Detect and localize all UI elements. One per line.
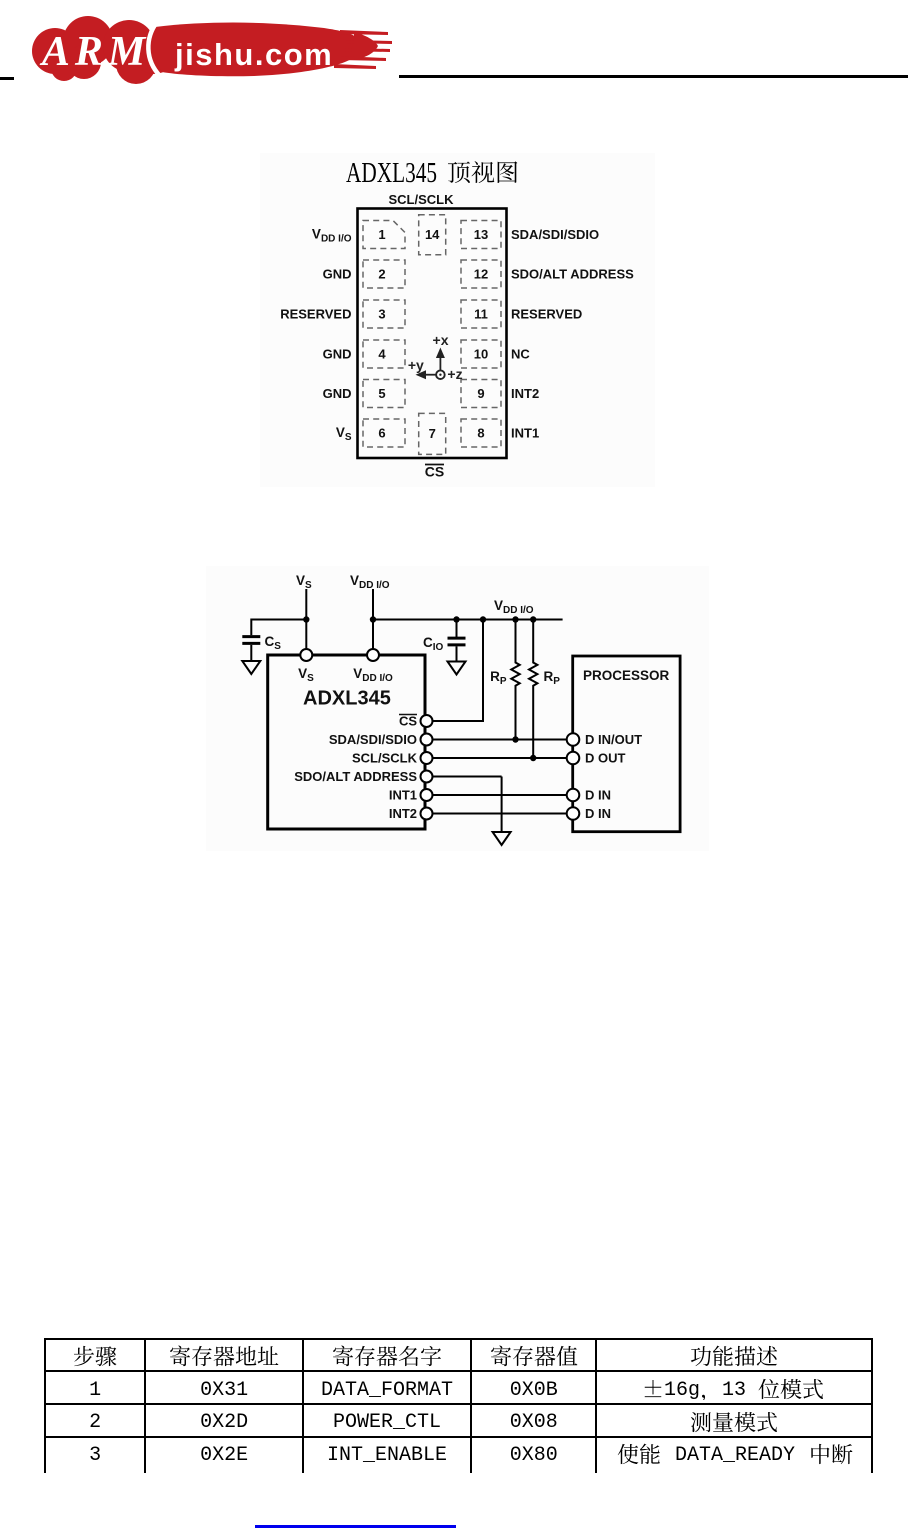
pin SCL/SCLK of ADXL345 — [421, 752, 433, 764]
svg-text:INT2: INT2 — [389, 806, 417, 821]
svg-text:D OUT: D OUT — [585, 751, 626, 766]
svg-text:RP: RP — [490, 669, 507, 687]
svg-text:10: 10 — [474, 347, 488, 362]
svg-text:SDA/SDI/SDIO: SDA/SDI/SDIO — [329, 732, 417, 747]
label CS — [265, 634, 282, 652]
pad pin 9 (right column) — [461, 380, 501, 408]
node CS bus junction — [480, 616, 486, 622]
wire VDD vertical — [372, 589, 374, 649]
ground under CIO — [448, 662, 466, 675]
label INT1 — [511, 426, 539, 441]
label INT2 — [511, 386, 539, 401]
label GND (pin 2) — [323, 267, 352, 282]
pad pin 14 (top middle) — [419, 215, 446, 255]
svg-text:9: 9 — [477, 386, 484, 401]
wire VDD I/O bus — [373, 619, 563, 621]
label +y — [408, 357, 424, 373]
svg-text:+y: +y — [408, 357, 424, 373]
svg-text:NC: NC — [511, 347, 530, 362]
label SCL/SCLK (pin) — [352, 751, 418, 766]
svg-text:D IN: D IN — [585, 806, 611, 821]
wire INT2 net — [433, 813, 567, 815]
pad pin 5 (left column) — [363, 380, 405, 408]
svg-text:+z: +z — [447, 366, 462, 382]
axis indicator: +x arrow — [436, 348, 445, 371]
node CIO junction — [453, 616, 459, 622]
svg-text:VDD I/O: VDD I/O — [350, 573, 390, 591]
svg-text:VDD I/O: VDD I/O — [312, 227, 352, 245]
pad pin 8 (right column) — [461, 419, 501, 447]
svg-text:6: 6 — [378, 426, 385, 441]
label SDA/SDI/SDIO (pin) — [329, 732, 417, 747]
svg-text:SCL/SCLK: SCL/SCLK — [352, 751, 418, 766]
label CIO — [423, 635, 444, 653]
label CS-bar (pin 7, bottom) — [425, 464, 444, 480]
svg-text:RESERVED: RESERVED — [511, 307, 582, 322]
label INT1 (pin) — [389, 788, 417, 803]
pad pin 12 (right column) — [461, 260, 501, 288]
svg-text:VS: VS — [336, 425, 352, 443]
node VDD junction — [370, 616, 376, 622]
svg-text:8: 8 — [477, 426, 484, 441]
svg-text:RP: RP — [544, 669, 561, 687]
svg-text:PROCESSOR: PROCESSOR — [583, 668, 670, 683]
svg-text:CS: CS — [425, 464, 444, 480]
svg-text:CS: CS — [399, 714, 417, 729]
pin D IN/OUT of PROCESSOR — [567, 733, 580, 746]
pad pin 7 (bottom middle) — [419, 413, 446, 454]
svg-text:ADXL345: ADXL345 — [303, 688, 391, 710]
node VS junction — [303, 616, 309, 622]
label RP1 — [490, 669, 507, 687]
label +x — [433, 332, 449, 348]
resistor RP1 (pull-up on SDA) — [511, 616, 519, 739]
label VDD I/O (bus) — [494, 598, 534, 616]
pad pin 4 (left column) — [363, 340, 405, 368]
ground under SDO — [493, 832, 511, 845]
label D IN — [585, 806, 611, 821]
pad pin 1 (left column) — [363, 221, 405, 249]
svg-text:jishu.com: jishu.com — [174, 37, 333, 72]
label RESERVED (pin 3) — [280, 307, 351, 322]
label +z — [447, 366, 462, 382]
label SCL/SCLK (pin 14, top) — [389, 192, 455, 207]
pin INT1 of ADXL345 — [421, 789, 433, 801]
label VDD I/O (pin 1) — [312, 227, 352, 245]
pad pin 3 (left column) — [363, 300, 405, 328]
svg-text:D IN: D IN — [585, 788, 611, 803]
label PROCESSOR — [583, 668, 670, 683]
resistor RP2 (pull-up on SCL) — [529, 616, 537, 758]
label RESERVED — [511, 307, 582, 322]
label ADXL345 — [303, 688, 391, 710]
IC package body ADXL345 (top view) — [358, 209, 507, 459]
pad pin 10 (right column) — [461, 340, 501, 368]
svg-text:INT1: INT1 — [389, 788, 417, 803]
svg-text:SCL/SCLK: SCL/SCLK — [389, 192, 455, 207]
label D IN/OUT — [585, 732, 642, 747]
svg-text:VS: VS — [298, 666, 314, 684]
wire CS net (bus to CS pin) — [433, 620, 485, 722]
svg-text:11: 11 — [474, 307, 488, 322]
svg-text:GND: GND — [323, 267, 352, 282]
wire SDO net to ground — [433, 777, 502, 832]
svg-text:INT1: INT1 — [511, 426, 539, 441]
svg-text:GND: GND — [323, 347, 352, 362]
wire SCL net — [433, 755, 567, 761]
svg-text:SDA/SDI/SDIO: SDA/SDI/SDIO — [511, 227, 599, 242]
pad pin 6 (left column) — [363, 419, 405, 447]
svg-text:5: 5 — [378, 386, 385, 401]
svg-text:3: 3 — [378, 307, 385, 322]
pin D IN of PROCESSOR — [567, 789, 580, 802]
svg-text:RESERVED: RESERVED — [280, 307, 351, 322]
label GND (pin 4) — [323, 347, 352, 362]
capacitor CIO — [448, 620, 466, 662]
pin SDA/SDI/SDIO of ADXL345 — [421, 734, 433, 746]
label VS (pin 6) — [336, 425, 352, 443]
svg-text:+x: +x — [433, 332, 449, 348]
svg-text:GND: GND — [323, 386, 352, 401]
svg-text:INT2: INT2 — [511, 386, 539, 401]
label D IN — [585, 788, 611, 803]
svg-text:D IN/OUT: D IN/OUT — [585, 732, 642, 747]
svg-text:VDD I/O: VDD I/O — [353, 666, 393, 684]
label RP2 — [544, 669, 561, 687]
label SDA/SDI/SDIO — [511, 227, 599, 242]
label SDO/ALT ADDRESS — [511, 267, 634, 282]
wire CS branch horizontal — [251, 619, 306, 636]
svg-text:CS: CS — [265, 634, 282, 652]
svg-text:13: 13 — [474, 227, 488, 242]
svg-text:7: 7 — [429, 426, 436, 441]
svg-text:VDD I/O: VDD I/O — [494, 598, 534, 616]
svg-text:14: 14 — [425, 227, 440, 242]
svg-text:1: 1 — [378, 227, 385, 242]
label VDD I/O (supply) — [350, 573, 390, 591]
wire VS vertical — [305, 589, 307, 649]
pin D IN of PROCESSOR — [567, 807, 580, 820]
pin VS of ADXL345 — [300, 649, 312, 661]
pin CS-bar of ADXL345 — [421, 715, 433, 727]
axis indicator: +y arrow — [416, 370, 437, 379]
svg-text:ARM: ARM — [39, 29, 150, 75]
pin INT2 of ADXL345 — [421, 808, 433, 820]
axis indicator: +z ring (out of page) — [436, 370, 445, 379]
pad pin 13 (right column) — [461, 221, 501, 249]
label D OUT — [585, 751, 626, 766]
wire SDA net — [433, 736, 567, 742]
pin SDO/ALT ADDRESS of ADXL345 — [421, 771, 433, 783]
PROCESSOR box — [573, 656, 680, 832]
ADXL345 box — [268, 655, 425, 829]
svg-text:SDO/ALT ADDRESS: SDO/ALT ADDRESS — [294, 769, 417, 784]
label VS (pin) — [298, 666, 314, 684]
capacitor CS — [242, 637, 260, 661]
svg-text:4: 4 — [378, 347, 386, 362]
svg-text:SDO/ALT ADDRESS: SDO/ALT ADDRESS — [511, 267, 634, 282]
label NC — [511, 347, 530, 362]
svg-text:2: 2 — [378, 267, 385, 282]
pin VDD I/O of ADXL345 — [367, 649, 379, 661]
pin D OUT of PROCESSOR — [567, 752, 580, 765]
label SDO/ALT ADDRESS (pin) — [294, 769, 417, 784]
ground under CS — [242, 661, 260, 674]
label CS-bar (pin) — [399, 714, 417, 729]
svg-text:12: 12 — [474, 267, 488, 282]
wire INT1 net — [433, 794, 567, 796]
svg-text:CIO: CIO — [423, 635, 444, 653]
pad pin 11 (right column) — [461, 300, 501, 328]
svg-text:VS: VS — [296, 573, 312, 591]
label VS (supply) — [296, 573, 312, 591]
label VDD I/O (pin) — [353, 666, 393, 684]
label INT2 (pin) — [389, 806, 417, 821]
label GND (pin 5) — [323, 386, 352, 401]
pad pin 2 (left column) — [363, 260, 405, 288]
